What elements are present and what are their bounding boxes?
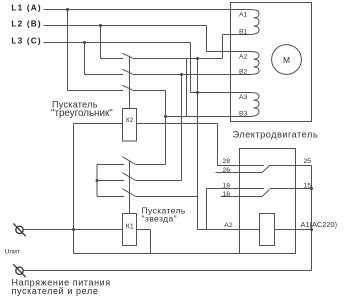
svg-text:пускателей и реле: пускателей и реле [12, 286, 99, 296]
svg-text:B3: B3 [239, 111, 248, 118]
svg-text:25: 25 [304, 158, 312, 165]
svg-text:L3 (C): L3 (C) [11, 37, 41, 46]
svg-text:B2: B2 [239, 69, 248, 76]
svg-text:A3: A3 [239, 94, 248, 101]
svg-text:A2: A2 [239, 53, 248, 60]
svg-text:A2: A2 [224, 222, 233, 229]
svg-text:15: 15 [304, 183, 312, 190]
svg-text:A1: A1 [239, 12, 248, 19]
svg-text:Uпит: Uпит [5, 248, 21, 255]
svg-text:A1(AC220): A1(AC220) [301, 220, 338, 229]
svg-text:16: 16 [223, 191, 231, 198]
svg-text:18: 18 [223, 183, 231, 190]
svg-text:B1: B1 [239, 29, 248, 36]
svg-text:"треугольник": "треугольник" [51, 108, 113, 119]
svg-text:К1: К1 [126, 224, 134, 231]
svg-text:"звезда": "звезда" [142, 214, 178, 224]
svg-text:L2 (B): L2 (B) [11, 20, 41, 29]
svg-text:К2: К2 [126, 117, 134, 124]
svg-text:M: M [283, 55, 290, 65]
svg-text:26: 26 [223, 167, 231, 174]
svg-text:28: 28 [223, 158, 231, 165]
svg-text:Электродвигатель: Электродвигатель [233, 129, 319, 139]
svg-text:L1 (A): L1 (A) [11, 4, 41, 13]
